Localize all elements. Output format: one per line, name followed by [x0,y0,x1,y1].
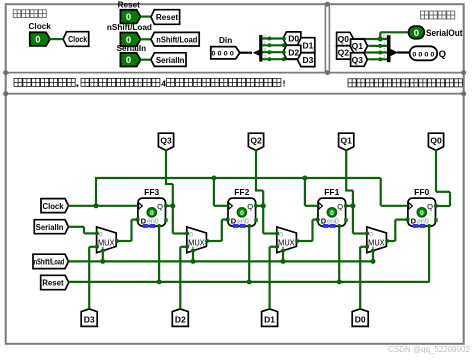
junction clock bus FF2 [211,176,216,181]
wire joint [267,37,271,41]
svg-text:0: 0 [126,55,131,66]
tunnel nShift/Load (input area) [151,32,199,46]
svg-text:0: 0 [383,34,386,39]
svg-text:Q1: Q1 [352,41,364,51]
port FF2 Q [254,204,258,208]
wire Q1 jog [345,189,353,191]
svg-text:Din: Din [219,36,232,45]
junction FF2 Q [261,203,266,208]
flip-flop FF3 [138,187,168,228]
tunnel Q1 (circuit) [339,133,354,150]
wire joint [378,57,382,61]
wire SerialIn pin to tunnel [140,59,151,61]
port MUX3 out [115,239,119,243]
flip-flop FF1 [318,187,348,228]
svg-text:0: 0 [35,35,40,46]
svg-text:Q: Q [157,202,163,211]
splitter base arrow [253,50,259,56]
wire to FF3 D [132,219,138,221]
svg-text:4: 4 [161,79,166,89]
wire MUX1 out riser [311,220,313,241]
wire to FF1 clock [305,205,318,207]
port FF1 Q [344,204,348,208]
svg-text:Q3: Q3 [160,135,172,145]
svg-text:MUX: MUX [98,238,115,247]
svg-text:Q0: Q0 [430,135,442,145]
bus wire Din to splitter [240,52,252,54]
svg-text:D0: D0 [355,314,366,324]
svg-text:3: 3 [383,54,386,59]
port MUX3 select [101,249,105,253]
wire nShift/Load pin to tunnel [140,38,151,40]
output pin Q 4-bit (value 0 0 0 0) [410,46,438,60]
junction FF1 Q [350,203,355,208]
wire Clock pin to tunnel [49,38,62,40]
port MUX1 out [295,239,299,243]
splitter Q spine [387,35,391,62]
junction select MUX0 [371,259,376,264]
svg-text:D1: D1 [264,314,275,324]
input pin Clock (value 0) [30,32,50,46]
port FF3 D [135,217,139,221]
wire D3 riser [88,247,90,309]
wire to MUX1 in0 [263,232,277,234]
svg-text:nShift/Load: nShift/Load [107,23,152,32]
credit text 武汉纺织大学数字逻辑课程组 [348,79,356,87]
wire FF1 clear riser [338,226,340,282]
wire MUX1 select riser [282,250,284,262]
wire joint [267,43,271,47]
wire D0 to MUX0 in1 [360,246,367,248]
wire nShift/Load select line [68,260,373,262]
multiplexer MUX (for FF0) [367,227,387,253]
wire D1 riser [269,247,271,309]
svg-text:Q: Q [247,202,253,211]
svg-text:Q2: Q2 [338,48,350,58]
wire MUX0 output [387,240,396,242]
multiplexer MUX (for FF3) [97,227,117,253]
wire D2 to MUX2 in1 [180,246,187,248]
port MUX0 in0 [365,231,369,235]
wire joint [378,51,382,55]
wire D3 to MUX3 in1 [89,246,96,248]
svg-text:0: 0 [240,210,244,217]
wire Q3 jog [165,183,173,185]
port MUX2 out [205,239,209,243]
wire SerialIn to MUX3 in0 [84,232,97,234]
svg-text:D: D [141,216,147,225]
wire to SerialOut pin [380,31,408,33]
tunnel nShift/Load (circuit) [33,254,69,268]
input pin Din 4-bit (value 0 0 0 0) [211,47,240,59]
svg-text:D: D [321,216,327,225]
tunnel D0 (input area) [283,32,301,45]
wire tap up to SerialOut [379,32,381,39]
wire Q1 tunnel to splitter [368,45,387,47]
splitter Din spine [259,35,262,62]
port FF0 clear [427,224,431,228]
area label 输出引脚 (output pins) [421,11,429,19]
svg-text:Clock: Clock [68,34,87,44]
frame handle dot [3,70,8,75]
port MUX2 in1 [185,245,189,249]
wire Q0 tunnel riser [435,150,437,192]
svg-text:!: ! [283,79,286,89]
wire FF2 clear riser [248,226,250,282]
wire Q0 down [449,192,451,206]
tunnel Clock (input area) [63,32,89,47]
svg-text:Q: Q [439,49,446,60]
wire MUX1 output [297,240,313,242]
port FF1 clear [337,224,341,228]
tunnel SerialIn (input area) [151,53,186,67]
flip-flop FF2 [228,187,258,228]
svg-text:0 0 0 0: 0 0 0 0 [211,51,234,58]
wire Reset line [69,281,430,283]
tunnel Clock (circuit) [41,199,69,213]
wire MUX3 select riser [102,250,104,262]
wire joint [282,37,286,41]
svg-text:MUX: MUX [188,238,205,247]
wire MUX2 output [207,240,222,242]
wire FF1 Q down to MUX [352,191,354,234]
tunnel Q0 (output area) [337,32,354,45]
port MUX1 in1 [275,245,279,249]
tunnel D1 (input area) [298,38,315,53]
notice text 请勿更改引脚区，直接用隧道标签构建4位并行存取的右移寄存器电路！ [14,78,22,86]
junction select MUX3 [100,259,105,264]
svg-text:D3: D3 [302,55,313,65]
svg-text:Q0: Q0 [338,34,350,44]
wire Q3 tunnel to splitter [368,58,387,60]
svg-text:Reset: Reset [156,12,178,22]
multiplexer MUX (for FF2) [187,227,207,253]
input pin SerialIn (value 0) [120,53,140,67]
wire D1 to MUX1 in1 [270,246,277,248]
svg-text:nShift/Load: nShift/Load [34,258,65,267]
port MUX2 select [191,249,195,253]
tunnel Q3 (circuit) [158,133,173,150]
wire FF2 Q out [256,205,263,207]
svg-text:FF3: FF3 [144,187,159,197]
wire MUX3 out riser [130,220,132,241]
tunnel SerialIn (circuit) [34,220,68,234]
wire clock bus [95,177,381,179]
wire joint [282,43,286,47]
wire MUX0 out riser [394,220,396,241]
wire D0 riser [359,247,361,309]
wire SerialIn jog [83,227,85,234]
wire FF2 Q down to MUX [262,191,264,234]
junction select MUX2 [191,259,196,264]
junction FF3 Q [170,203,175,208]
port MUX1 select [281,249,285,253]
port FF2 D [225,217,229,221]
wire MUX0 select riser [372,250,374,262]
tunnel Q2 (circuit) [248,133,263,150]
svg-text:SerialIn: SerialIn [117,44,147,53]
port MUX2 in0 [185,231,189,235]
svg-text:nShift/Load: nShift/Load [156,34,197,44]
svg-text:D2: D2 [175,314,186,324]
junction reset FF3 [157,279,162,284]
svg-text:Q: Q [427,202,433,211]
tunnel D2 (input area) [283,45,301,59]
wire to FF2 clock [214,205,228,207]
port MUX0 in1 [365,245,369,249]
svg-text:Reset: Reset [118,1,141,10]
svg-text:D: D [231,216,237,225]
wire MUX2 out riser [221,220,223,241]
wire MUX2 select riser [192,250,194,262]
port FF2 clear [247,224,251,228]
svg-text:Q3: Q3 [352,55,364,65]
wire Q3 tunnel riser [165,150,167,184]
svg-text:SerialOut: SerialOut [426,28,463,38]
port MUX3 in1 [95,245,99,249]
wire clock riser FF2 [213,178,215,206]
port MUX0 out [385,239,389,243]
wire MUX3 output [116,240,131,242]
wire FF1 Q out [346,205,353,207]
tunnel Q1 (output area) [351,39,368,53]
tunnel Q0 (circuit) [428,133,443,150]
svg-text:0: 0 [126,12,131,23]
port FF3 Q [164,204,168,208]
wire Q2 jog [255,189,263,191]
junction clock/riser [94,203,99,208]
divider between input and output pin areas [324,4,326,72]
tunnel D2 (circuit) [172,309,188,327]
wire joint [282,50,286,54]
wire to FF0 D [395,219,408,221]
svg-text:Reset: Reset [42,278,64,288]
wire FF3 Q down to MUX [172,184,174,234]
junction select MUX1 [281,259,286,264]
wire Reset pin to tunnel [140,16,151,18]
svg-text:FF2: FF2 [234,187,249,197]
wire to FF1 D [313,219,319,221]
wire Q0 tunnel to splitter [354,38,387,40]
svg-text:0: 0 [330,210,334,217]
port FF3 clear [157,224,161,228]
wire joint [282,57,286,61]
wire to FF2 D [222,219,228,221]
svg-text:D0: D0 [288,34,299,44]
multiplexer MUX (for FF1) [277,227,297,253]
svg-text:Clock: Clock [29,22,52,31]
svg-text:2: 2 [383,47,386,52]
tunnel D1 (circuit) [262,309,278,327]
tunnel D0 (circuit) [352,309,368,327]
wire D2 riser [179,247,181,309]
svg-text:D3: D3 [84,314,95,324]
wire joint [267,50,271,54]
svg-text:D: D [411,216,417,225]
wire joint [267,57,271,61]
svg-text:MUX: MUX [278,238,295,247]
frame handle dot [461,91,466,96]
wire joint [378,44,382,48]
svg-text:FF0: FF0 [414,187,429,197]
svg-text:D1: D1 [302,40,313,50]
wire Q2 tunnel riser [255,150,257,191]
splitter branch wires to D0..D3 [262,37,282,39]
notice band borders [6,72,464,74]
wire FF3 Q out [166,205,173,207]
tunnel Q2 (output area) [337,46,354,59]
wire Q0 jog [436,191,450,193]
splitter base arrow (output) [391,49,398,56]
svg-text:Q: Q [337,202,343,211]
junction reset FF2 [247,279,252,284]
frame handle dot [325,2,330,7]
svg-text:FF1: FF1 [324,187,339,197]
area label 输入引脚 (input pins) [13,10,21,18]
junction clock bus FF1 [302,176,307,181]
wire to MUX2 in0 [173,232,187,234]
wire Q1 tunnel riser [345,150,347,191]
wire to MUX0 in0 [353,232,367,234]
tunnel Reset (circuit) [41,275,69,289]
wire clock riser FF1 [304,178,306,206]
svg-text:Q1: Q1 [341,135,353,145]
svg-text:Clock: Clock [43,201,64,211]
tunnel D3 (circuit) [81,309,97,327]
svg-text:0: 0 [420,210,424,217]
port FF1 D [315,217,319,221]
port FF0 D [405,217,409,221]
frame handle dot [461,70,466,75]
svg-text:SerialIn: SerialIn [36,222,64,232]
tunnel Q3 (output area) [351,53,368,67]
svg-text:0: 0 [414,28,419,39]
flip-flop FF0 [408,187,438,228]
port MUX1 in0 [275,231,279,235]
bus wire splitter to Q pin [397,51,410,53]
svg-text:0: 0 [150,210,154,217]
wire clock riser FF0 [380,178,382,206]
input pin Reset (value 0) [120,10,140,24]
svg-text:SerialIn: SerialIn [156,55,185,65]
svg-text:1: 1 [383,41,386,46]
svg-text:Q2: Q2 [250,135,262,145]
svg-text:0 0 0 0: 0 0 0 0 [412,51,434,58]
tunnel D3 (input area) [298,53,315,67]
input pin nShift/Load (value 0) [120,33,140,47]
svg-text:CSDN @qq_52209002: CSDN @qq_52209002 [388,345,471,354]
wire clock riser FF3 [95,178,97,206]
wire FF3 clear riser [158,226,160,282]
port MUX3 in0 [95,231,99,235]
tunnel Reset (input area) [151,10,180,25]
wire into FF0 Q port [436,205,450,207]
port FF0 Q [434,204,438,208]
svg-text:D2: D2 [288,47,299,57]
junction SerialOut tap [378,37,383,42]
wire Q2 tunnel to splitter [354,51,387,53]
frame handle dot [325,70,330,75]
output pin SerialOut (value 0) [409,26,425,39]
wire FF0 clear riser [428,226,430,282]
junction reset FF1 [337,279,342,284]
svg-text:MUX: MUX [368,238,385,247]
frame handle dot [3,91,8,96]
wire SerialIn tunnel [68,226,84,228]
wire to FF0 clock [381,205,408,207]
wire Clock tunnel to FF3 clock [68,205,138,207]
port MUX0 select [371,249,375,253]
